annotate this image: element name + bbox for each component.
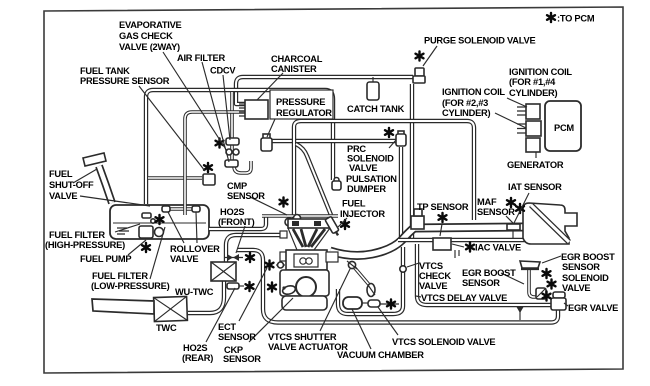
svg-text:(FOR #1,#4: (FOR #1,#4 [509, 77, 556, 87]
label charcoal canister [271, 54, 323, 74]
label HO2S rear [182, 343, 213, 363]
WU-TWC box [211, 262, 236, 281]
generator connector [526, 138, 540, 152]
svg-text::TO PCM: :TO PCM [557, 14, 595, 24]
svg-text:VALVE: VALVE [49, 191, 77, 201]
hose: purge solenoid valve down pipe [410, 84, 414, 240]
leader ECT sensor [239, 268, 267, 321]
label generator [507, 160, 564, 170]
intake plenum [288, 219, 330, 228]
leader VTCS check valve [407, 263, 419, 267]
engine block lower [280, 270, 329, 296]
engine left tabs [280, 231, 287, 238]
hose: exhaust manifold to WU-TWC elbow [226, 235, 286, 262]
label EGR boost sensor [462, 268, 516, 288]
svg-text:SENSOR: SENSOR [227, 191, 265, 201]
svg-text:DUMPER: DUMPER [347, 184, 386, 194]
HO2S rear plug [227, 283, 239, 289]
air cleaner housing [523, 203, 577, 244]
hose: VTCS delay valve line [417, 244, 552, 305]
fuel tank pressure sensor asterisk [204, 163, 212, 172]
svg-text:VALVE: VALVE [170, 254, 198, 264]
leader purge solenoid valve [423, 46, 437, 66]
EGR boost sensor cap [520, 261, 540, 268]
svg-text:GENERATOR: GENERATOR [507, 160, 564, 170]
intake runners [293, 229, 325, 247]
ignition coil connector (#1,#4) [526, 104, 540, 119]
fuel pump asterisk [156, 215, 164, 224]
label ignition coil 2-3 [442, 87, 505, 118]
label fuel pump [80, 254, 131, 264]
rollover valve right fitting [192, 206, 200, 212]
svg-text:(REAR): (REAR) [182, 353, 213, 363]
svg-text:(HIGH-PRESSURE): (HIGH-PRESSURE) [45, 240, 125, 250]
svg-text:VALVE: VALVE [419, 281, 447, 291]
fuel tank pressure sensor body [203, 174, 215, 185]
leader rollover valve 1 [168, 212, 184, 243]
svg-text:FUEL: FUEL [49, 169, 73, 179]
catch tank [372, 77, 374, 82]
exhaust tail pipe [92, 299, 154, 314]
evaporative gas check valve fitting [226, 149, 232, 155]
svg-text:PRC: PRC [347, 144, 366, 154]
fuel injector asterisk [341, 220, 349, 229]
leader MAF sensor [506, 216, 513, 223]
hose: tank vent line (fuel tank up and across to pulsation dumper drop) [146, 90, 333, 204]
svg-text:PULSATION: PULSATION [346, 174, 397, 184]
label air filter [177, 53, 225, 63]
svg-text:CHECK: CHECK [419, 271, 451, 281]
engine left asterisk [266, 260, 274, 269]
VTCS solenoid to loop stub [380, 303, 399, 305]
label pressure regulator [276, 97, 332, 118]
svg-text:INJECTOR: INJECTOR [340, 209, 385, 219]
label EGR valve [568, 303, 618, 313]
leader ignition coil #1,#4 [507, 98, 527, 107]
ECT/shutter nipple on duct [348, 261, 355, 268]
small valve on pump [151, 219, 155, 223]
svg-text:VALVE (2WAY): VALVE (2WAY) [119, 42, 180, 52]
leader air filter [202, 62, 229, 162]
engine block upper [286, 250, 327, 270]
IAC valve body [433, 238, 451, 250]
svg-text:SENSOR: SENSOR [218, 332, 256, 342]
label fuel filter low-pressure [91, 271, 170, 291]
PRC solenoid valve body [398, 131, 404, 135]
svg-text:ROLLOVER: ROLLOVER [170, 244, 220, 254]
flow arrow on delay line [519, 307, 521, 320]
label CMP sensor [227, 181, 265, 201]
CMP sensor body [285, 218, 293, 226]
legend asterisk and text [547, 13, 555, 22]
label ignition coil 1-4 [509, 67, 572, 98]
VTCS solenoid valve fitting [368, 300, 380, 307]
label IAT sensor [508, 182, 562, 192]
PCM box [545, 101, 581, 151]
svg-text:WU-TWC: WU-TWC [175, 287, 214, 297]
leader VTCS solenoid valve [378, 307, 398, 335]
svg-text:SOLENOID: SOLENOID [562, 273, 609, 283]
leader fuel filter low-pressure [150, 227, 165, 279]
leader EGR boost sensor solenoid valve [542, 256, 561, 263]
leader pressure regulator [267, 119, 275, 137]
svg-text:(LOW-PRESSURE): (LOW-PRESSURE) [91, 281, 170, 291]
label fuel shut-off valve [49, 169, 94, 201]
svg-text:HO2S: HO2S [183, 343, 207, 353]
svg-text:FUEL FILTER: FUEL FILTER [92, 271, 148, 281]
leader fuel pump [128, 240, 146, 255]
leader ignition coil #2,#3 [495, 113, 526, 128]
CMP sensor asterisk [280, 197, 288, 206]
leader TP sensor [440, 224, 442, 236]
leader IAC valve [452, 244, 464, 247]
TWC box [154, 296, 188, 321]
leader IAT sensor [514, 193, 529, 223]
PRC solenoid valve asterisk [385, 128, 393, 137]
svg-text:VALVE: VALVE [562, 283, 590, 293]
label VTCS shutter valve actuator [268, 332, 348, 352]
CDCV fitting [226, 138, 239, 145]
MAF sensor asterisk 1 [507, 198, 515, 207]
label fuel filter high-pressure [45, 230, 125, 250]
svg-text:CDCV: CDCV [210, 66, 236, 76]
leader rollover valve 2 [196, 212, 197, 243]
hose: CDCV drain drop [230, 92, 234, 164]
VTCS shutter valve actuator oval [282, 284, 297, 295]
label IAC valve [475, 243, 521, 253]
leader VTCS delay valve [416, 296, 421, 297]
fuel rail [262, 214, 338, 218]
PCM label [554, 123, 574, 133]
HO2S front plug [276, 264, 285, 266]
svg-text:TWC: TWC [156, 323, 177, 333]
svg-text:CANISTER: CANISTER [271, 64, 317, 74]
label VTCS delay valve [421, 293, 507, 303]
purge solenoid valve body [415, 68, 424, 76]
ignition coil connector (#2,#3) [526, 121, 541, 136]
vacuum chamber capsule [343, 297, 362, 309]
EGR solenoid asterisk 2 [543, 291, 551, 300]
EGR valve body [553, 292, 565, 298]
label fuel injector [340, 199, 385, 220]
leader CMP sensor [250, 197, 287, 215]
svg-text:FUEL: FUEL [342, 199, 366, 209]
svg-text:REGULATOR: REGULATOR [276, 108, 332, 118]
svg-text:VTCS: VTCS [419, 261, 443, 271]
label VTCS solenoid valve [392, 337, 495, 347]
hose: fuel feed line (tank to fuel rail riser) [209, 216, 266, 229]
pressure regulator body [263, 134, 270, 139]
svg-text:SHUT-OFF: SHUT-OFF [49, 180, 94, 190]
funnel sides [288, 228, 330, 250]
label vacuum chamber [337, 350, 424, 360]
IAT sensor plug [507, 224, 520, 230]
svg-text:PCM: PCM [554, 123, 574, 133]
svg-text:CMP: CMP [227, 181, 247, 191]
hose: fuel tank pressure sensor line [148, 176, 202, 180]
leader EGR valve [564, 303, 568, 306]
VTCS check valve [400, 266, 406, 272]
label rollover valve [170, 244, 220, 264]
svg-text:PRESSURE: PRESSURE [276, 97, 325, 107]
svg-text:IAC VALVE: IAC VALVE [475, 243, 521, 253]
leader EGR boost sensor [501, 273, 524, 284]
pressure regulator label box [270, 90, 333, 119]
leader CDCV [223, 75, 230, 140]
svg-text:EGR BOOST: EGR BOOST [561, 252, 615, 262]
throttle body [411, 216, 424, 229]
HO2S rear asterisk [246, 282, 254, 291]
hose: air filter J-hook outlet [234, 161, 251, 173]
label TP sensor [417, 202, 469, 212]
label WU-TWC [175, 287, 214, 297]
pulsation dumper body [334, 178, 339, 183]
label CKP sensor [223, 345, 261, 364]
svg-text:FUEL PUMP: FUEL PUMP [80, 254, 131, 264]
purge solenoid valve asterisk [416, 51, 424, 60]
fuel level line [113, 222, 206, 224]
fuel tank [110, 205, 209, 239]
fuel filler neck [99, 166, 112, 203]
svg-text:MAF: MAF [477, 197, 497, 207]
surge tank lower line [398, 238, 528, 242]
leader fuel filter high-pressure [115, 224, 140, 232]
svg-text:SENSOR: SENSOR [223, 354, 261, 364]
label fuel tank pressure sensor [80, 66, 170, 86]
svg-text:FUEL FILTER: FUEL FILTER [49, 230, 105, 240]
fuel filter (low-pressure) body [155, 228, 164, 237]
leader fuel shut-off valve 2 [80, 196, 150, 206]
svg-text:IGNITION COIL: IGNITION COIL [442, 87, 505, 97]
label TWC [156, 323, 177, 333]
svg-text:PURGE SOLENOID VALVE: PURGE SOLENOID VALVE [424, 36, 535, 46]
engine head right protrusion [326, 252, 338, 262]
svg-text:AIR FILTER: AIR FILTER [177, 53, 225, 63]
fuel hatch marks [117, 228, 129, 234]
svg-text:CHARCOAL: CHARCOAL [271, 54, 323, 64]
hose: EGR boost sensor stem [529, 268, 538, 297]
EGR boost sensor solenoid valve body [536, 288, 546, 299]
VTCS solenoid valve body [367, 284, 375, 297]
leader HO2S rear [206, 288, 235, 342]
svg-text:IAT SENSOR: IAT SENSOR [508, 182, 562, 192]
leader fuel injector [338, 218, 347, 227]
label ECT sensor [218, 322, 256, 342]
hose: VTCS solenoid to shutter nipple [354, 267, 371, 287]
leader vacuum chamber [352, 309, 371, 349]
svg-text:CYLINDER): CYLINDER) [442, 108, 491, 118]
svg-text:HO2S: HO2S [220, 207, 244, 217]
leader PRC solenoid valve [389, 140, 396, 148]
svg-text:VTCS SHUTTER: VTCS SHUTTER [268, 332, 337, 342]
label evaporative gas check valve [119, 20, 182, 52]
fuel filter asterisk [142, 243, 150, 252]
fuel filler cap [83, 153, 106, 166]
hose: rollover valve tube on tank top [166, 207, 195, 211]
leader fuel shut-off valve 1 [73, 169, 97, 183]
leader HO2S front [236, 226, 245, 253]
leader CKP sensor [249, 298, 293, 342]
VTCS solenoid valve asterisk [387, 299, 395, 308]
label HO2S front [218, 207, 255, 227]
label catch tank [347, 104, 405, 114]
leader fuel tank pressure sensor [139, 86, 205, 171]
fuel injector body [325, 216, 341, 237]
oil pan [282, 296, 327, 310]
hose: PRC line (pressure regulator to PRC solenoid valve) [268, 139, 396, 143]
EGR solenoid asterisk 1 [548, 279, 556, 288]
svg-text:EGR BOOST: EGR BOOST [462, 268, 516, 278]
svg-text:VACUUM CHAMBER: VACUUM CHAMBER [337, 350, 424, 360]
svg-text:SENSOR: SENSOR [562, 262, 600, 272]
svg-text:IGNITION COIL: IGNITION COIL [509, 67, 572, 77]
hose: purge line (canister to purge solenoid valve) [236, 77, 413, 104]
fuel pump box [139, 226, 153, 238]
label PRC solenoid valve pulsation dumper [346, 144, 397, 194]
svg-text:EGR VALVE: EGR VALVE [568, 303, 618, 313]
label EGR boost sensor solenoid valve [561, 252, 615, 293]
air filter fitting [225, 160, 238, 167]
leader evaporative gas check valve [163, 52, 227, 151]
hose: WU-TWC down elbow to TWC [188, 281, 224, 313]
leader generator [535, 152, 537, 158]
HO2S front check valve [224, 257, 243, 259]
hose: engine room loop (plenum up, across, down to intake duct) [294, 121, 474, 220]
hose: vacuum chamber loop [338, 247, 403, 314]
air cleaner diagonal duct [531, 205, 569, 242]
svg-text:EVAPORATIVE: EVAPORATIVE [119, 20, 182, 30]
svg-text:SENSOR: SENSOR [477, 207, 515, 217]
svg-text:VTCS DELAY VALVE: VTCS DELAY VALVE [421, 293, 507, 303]
hose: regulator to fuel rail diagonal [296, 144, 331, 215]
svg-text:ECT: ECT [218, 322, 236, 332]
svg-text:TP SENSOR: TP SENSOR [417, 202, 469, 212]
IAC valve asterisk [466, 242, 474, 251]
svg-text:PRESSURE SENSOR: PRESSURE SENSOR [80, 76, 170, 86]
HO2S front asterisk [246, 253, 254, 262]
svg-text:VALVE: VALVE [349, 163, 377, 173]
label VTCS check valve [419, 261, 451, 291]
svg-text:SOLENOID: SOLENOID [347, 154, 394, 164]
hose: canister to tank interior line [185, 112, 245, 215]
MAF sensor asterisk 2 [516, 204, 524, 213]
svg-text:VTCS SOLENOID VALVE: VTCS SOLENOID VALVE [392, 337, 495, 347]
leader charcoal canister [257, 73, 283, 100]
EGR boost sensor asterisk [543, 269, 551, 278]
label CDCV [210, 66, 236, 76]
leader VTCS shutter valve actuator [320, 269, 350, 331]
fuel filter (high-pressure) body [142, 213, 151, 218]
CDCV asterisk [216, 138, 224, 147]
svg-text:FUEL TANK: FUEL TANK [80, 66, 130, 76]
hose: engine down to long bottom pipe to EGR valve [237, 250, 558, 323]
svg-text:CATCH TANK: CATCH TANK [347, 104, 405, 114]
label purge solenoid valve [424, 36, 535, 46]
svg-text:CYLINDER): CYLINDER) [509, 88, 558, 98]
svg-text:GAS CHECK: GAS CHECK [119, 31, 173, 41]
svg-text:(FRONT): (FRONT) [218, 217, 255, 227]
CKP sensor asterisk [268, 282, 276, 291]
vacuum chamber stub [362, 302, 368, 304]
svg-text:SENSOR: SENSOR [462, 278, 500, 288]
hose: PRC solenoid valve down pipe [399, 147, 403, 240]
label MAF sensor [477, 197, 515, 217]
rollover valve left fitting [162, 206, 170, 212]
TP sensor asterisk [439, 213, 447, 222]
crank pulley [296, 277, 316, 297]
svg-text:(FOR #2,#3: (FOR #2,#3 [442, 98, 488, 108]
charcoal canister box [245, 100, 268, 119]
intake duct (throttle to air cleaner) [330, 227, 523, 255]
